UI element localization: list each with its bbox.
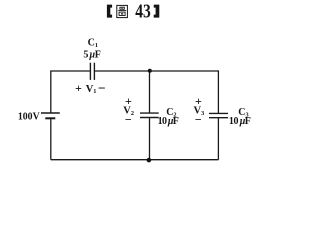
title bracket left 【 bbox=[107, 5, 112, 18]
svg-text:100V: 100V bbox=[18, 111, 40, 123]
svg-text:−: − bbox=[195, 112, 202, 126]
node junction top bbox=[148, 69, 152, 73]
capacitor C3 bbox=[209, 113, 228, 117]
capacitor C1 bbox=[90, 63, 94, 80]
svg-text:5μF: 5μF bbox=[83, 50, 101, 61]
label 100V bbox=[18, 111, 40, 123]
title text 43 bbox=[135, 0, 151, 22]
wire right vertical lower bbox=[217, 118, 219, 160]
wire bottom bbox=[51, 159, 219, 161]
node junction bottom bbox=[147, 158, 152, 163]
label + V1 - bbox=[75, 81, 106, 96]
wire C2 branch lower bbox=[149, 118, 151, 160]
wire left vertical upper bbox=[50, 70, 52, 113]
label 10 uF of C2 bbox=[158, 116, 179, 127]
wire top-left segment bbox=[51, 70, 90, 72]
wire top-right segment bbox=[95, 70, 218, 72]
svg-text:+: + bbox=[75, 81, 82, 95]
label C1 bbox=[88, 38, 98, 49]
wire C2 branch upper bbox=[149, 71, 151, 113]
svg-text:10μF: 10μF bbox=[158, 116, 179, 127]
title bracket right 】 bbox=[154, 5, 160, 18]
wire left vertical lower bbox=[50, 118, 52, 159]
label + V3 - bbox=[194, 94, 205, 126]
svg-text:−: − bbox=[125, 112, 132, 126]
capacitor C2 bbox=[140, 113, 159, 117]
svg-text:43: 43 bbox=[135, 0, 151, 22]
label 10 uF of C3 bbox=[229, 116, 251, 127]
label C2 bbox=[166, 107, 176, 118]
svg-text:10μF: 10μF bbox=[229, 116, 251, 127]
battery 100V bbox=[41, 113, 60, 118]
svg-text:−: − bbox=[98, 81, 106, 96]
label + V2 - bbox=[123, 94, 134, 126]
label 5 uF bbox=[83, 50, 101, 61]
label C3 bbox=[238, 107, 248, 118]
wire right vertical upper bbox=[217, 70, 219, 113]
title glyph 圖 bbox=[117, 5, 128, 17]
